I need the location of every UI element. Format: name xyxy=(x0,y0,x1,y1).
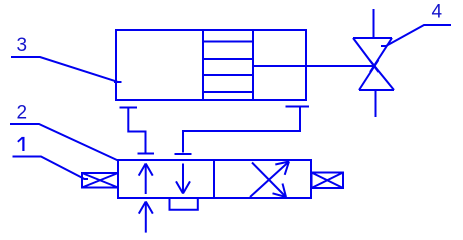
piston seal line 1 xyxy=(203,41,253,43)
label 2 underline and leader xyxy=(10,124,118,161)
valve 4 top stub wire xyxy=(373,9,375,38)
valve 2 crossed arrow up-right xyxy=(250,162,289,198)
supply pressure arrow xyxy=(139,202,153,233)
valve port A T xyxy=(138,153,155,155)
solenoid 1 left box xyxy=(82,173,118,188)
valve 2 crossed arrow down-right xyxy=(252,163,286,198)
valve port B T xyxy=(175,153,192,155)
label 3 leader tick xyxy=(114,81,122,83)
label 1 leader tick xyxy=(84,178,89,180)
svg-text:2: 2 xyxy=(17,103,28,124)
valve 4 bottom stub wire xyxy=(375,90,377,117)
piston seal line 3 xyxy=(203,74,253,76)
valve 2 up flow arrow xyxy=(139,164,153,195)
piston rod wire to valve 4 xyxy=(253,65,374,67)
cylinder right port T xyxy=(286,106,310,108)
label 4 underline and leader xyxy=(386,25,451,46)
svg-text:3: 3 xyxy=(17,35,28,56)
valve 4 bottom triangle xyxy=(359,60,394,90)
directional valve 2 body xyxy=(118,160,311,198)
valve 2 down flow arrow xyxy=(176,164,190,194)
pipe: cylinder right port to valve port B xyxy=(183,107,300,153)
pipe: cylinder left port to valve port A xyxy=(128,108,145,153)
label 3 underline and leader xyxy=(11,57,118,82)
piston seal line 4 xyxy=(203,91,253,93)
label 4 leader tick xyxy=(381,45,387,47)
piston seal line 2 xyxy=(203,58,253,60)
solenoid right box xyxy=(312,173,344,189)
label 1 text xyxy=(18,137,24,151)
cylinder 3 piston left edge xyxy=(202,30,204,100)
cylinder left port T xyxy=(120,107,138,109)
svg-text:4: 4 xyxy=(432,2,443,23)
cylinder 3 piston right edge xyxy=(252,30,254,100)
cylinder 3 body xyxy=(116,30,306,100)
tank drain bracket xyxy=(170,199,198,210)
valve 2 position divider xyxy=(213,160,215,198)
valve 4 top triangle xyxy=(353,38,392,72)
label 1 underline and leader xyxy=(13,157,85,180)
